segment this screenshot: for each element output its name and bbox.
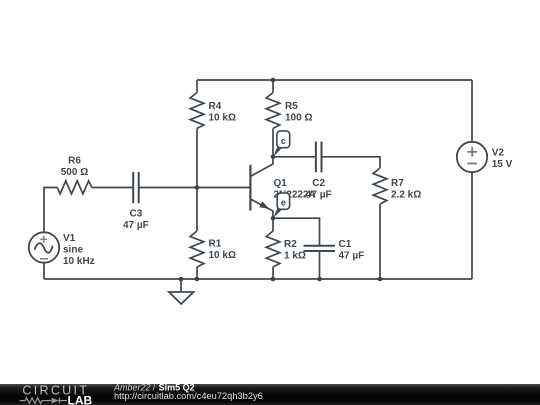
wire R2 top lead <box>272 218 274 231</box>
svg-text:R5: R5 <box>285 101 298 112</box>
node R7 bottom <box>378 277 383 282</box>
svg-text:V1: V1 <box>63 233 76 244</box>
junction dots <box>179 78 383 282</box>
svg-text:10 kHz: 10 kHz <box>63 256 95 267</box>
svg-text:R6: R6 <box>68 156 81 167</box>
resistor R1 <box>190 231 204 267</box>
V2 plus minus <box>467 147 477 164</box>
node base junction <box>195 185 200 190</box>
svg-text:sine: sine <box>63 245 83 256</box>
svg-text:C3: C3 <box>130 208 143 219</box>
emitter arrow Q1 <box>259 201 269 209</box>
svg-text:2.2 kΩ: 2.2 kΩ <box>391 190 421 201</box>
capacitor C3 <box>133 172 139 203</box>
node R2 bottom <box>271 277 276 282</box>
logo resistor-diode glyph <box>20 398 60 404</box>
voltage source V2 <box>457 142 487 172</box>
node emitter e <box>271 216 276 221</box>
svg-text:R7: R7 <box>391 178 404 189</box>
svg-text:10 kΩ: 10 kΩ <box>209 250 236 261</box>
wire C1 bottom lead <box>319 251 321 279</box>
wire R2 bottom lead <box>272 267 274 279</box>
svg-text:e: e <box>281 198 286 208</box>
resistor R6 <box>57 181 92 194</box>
voltage source V1 <box>29 232 59 262</box>
svg-text:R2: R2 <box>284 239 297 250</box>
wire top rail <box>197 79 472 81</box>
svg-text:47 µF: 47 µF <box>123 220 149 231</box>
wire V1 bottom lead <box>43 263 45 279</box>
svg-text:V2: V2 <box>492 147 505 158</box>
wire emitter to C1 <box>273 218 320 246</box>
wire R4 top lead <box>196 80 198 93</box>
wire R5 to collector node <box>272 128 274 156</box>
node top R5 <box>271 78 276 83</box>
wire R6 to C3 <box>92 187 133 189</box>
svg-text:47 µF: 47 µF <box>339 251 365 262</box>
wire R1 bottom lead <box>196 267 198 279</box>
transistor Q1 <box>249 165 251 211</box>
svg-text:15 V: 15 V <box>492 159 513 170</box>
node R1 bottom <box>195 277 200 282</box>
ground <box>180 279 182 292</box>
flag e <box>273 193 289 218</box>
svg-text:C2: C2 <box>312 178 325 189</box>
svg-text:R1: R1 <box>209 239 222 250</box>
wire C3 to base <box>139 187 251 189</box>
node ground <box>179 277 184 282</box>
wire R4 bottom lead to base node <box>196 128 198 187</box>
wire base node to R1 <box>196 188 198 232</box>
svg-text:http://circuitlab.com/c4eu72qh: http://circuitlab.com/c4eu72qh3b2y6 <box>114 391 263 401</box>
wire R7 bottom lead <box>379 204 381 279</box>
wire V2 top lead <box>471 80 473 142</box>
node C1 bottom <box>317 277 322 282</box>
capacitor C2 <box>316 142 322 173</box>
resistor R2 <box>266 231 280 267</box>
wire C2 to R7 <box>322 157 380 168</box>
svg-text:500 Ω: 500 Ω <box>61 167 88 178</box>
svg-text:100 Ω: 100 Ω <box>285 113 312 124</box>
resistor R4 <box>190 93 204 129</box>
svg-text:47 µF: 47 µF <box>306 190 332 201</box>
flag c <box>273 131 289 157</box>
svg-text:c: c <box>281 136 286 146</box>
svg-text:C1: C1 <box>339 239 352 250</box>
resistor R5 <box>266 93 280 129</box>
wire bottom rail <box>44 278 472 280</box>
wire R5 top lead <box>272 80 274 93</box>
wire V1 riser <box>44 188 57 233</box>
resistor R7 <box>373 168 387 204</box>
wire V2 bottom lead <box>471 172 473 279</box>
svg-text:1 kΩ: 1 kΩ <box>284 251 306 262</box>
wire collector node to C2 <box>273 156 315 158</box>
V1 plus minus <box>40 236 48 259</box>
capacitor C1 <box>304 246 336 251</box>
svg-text:LAB: LAB <box>68 393 93 405</box>
svg-text:Q1: Q1 <box>274 178 288 189</box>
node collector c <box>271 155 276 160</box>
svg-text:R4: R4 <box>209 101 222 112</box>
svg-text:10 kΩ: 10 kΩ <box>209 113 236 124</box>
